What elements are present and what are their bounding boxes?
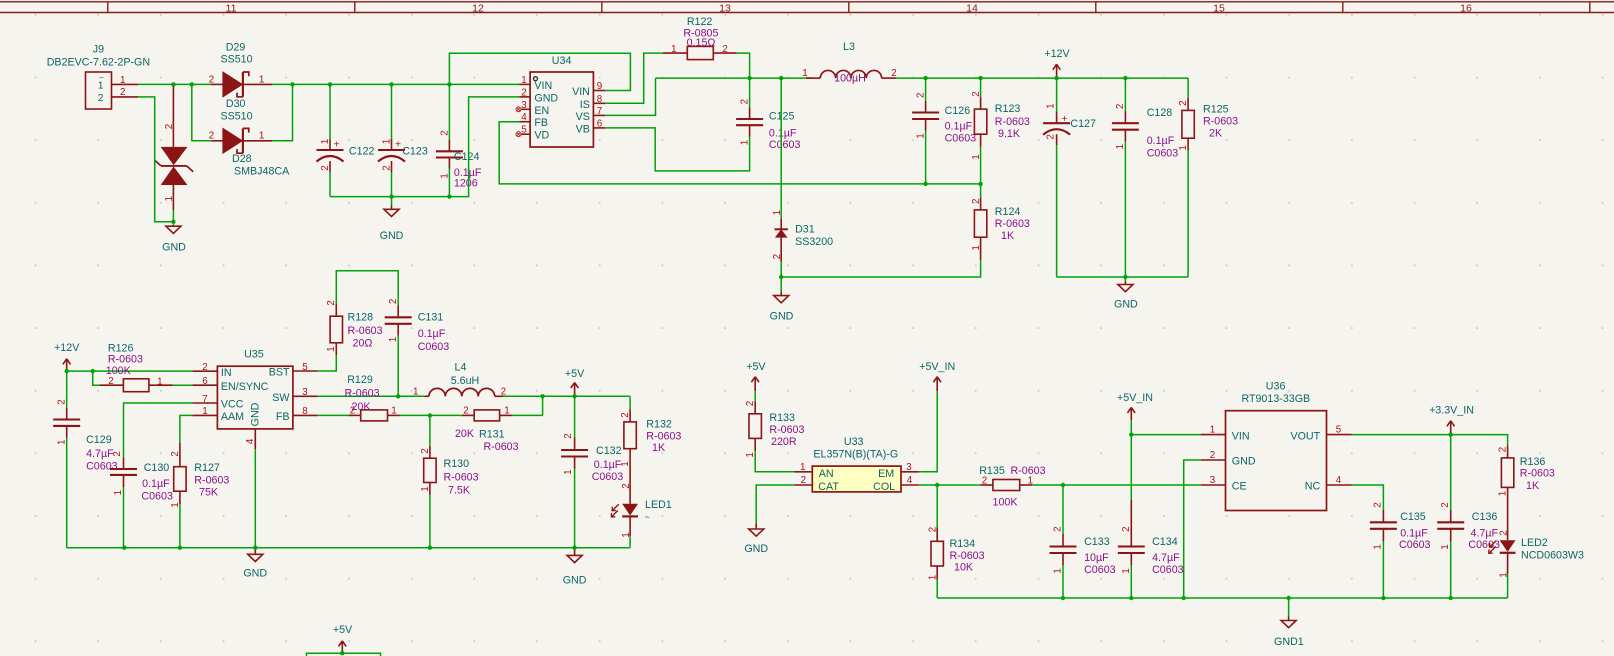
svg-text:1: 1 (1178, 145, 1189, 150)
capacitor C122 (317, 84, 375, 196)
resistor R133 (745, 391, 804, 458)
svg-text:5: 5 (1336, 425, 1342, 436)
svg-text:FB: FB (534, 117, 548, 129)
wire U36 gnd (1184, 460, 1201, 598)
svg-text:R128: R128 (348, 312, 374, 324)
svg-text:AAM: AAM (221, 411, 244, 423)
svg-text:VB: VB (576, 123, 590, 135)
svg-text:2: 2 (916, 93, 927, 98)
junction (447, 82, 451, 86)
wire +12V filter ground rail (1057, 276, 1189, 278)
svg-text:R-0603: R-0603 (1010, 465, 1045, 477)
svg-text:1: 1 (57, 440, 68, 445)
junction (978, 182, 982, 186)
capacitor C133 (1050, 485, 1116, 598)
svg-text:R136: R136 (1520, 456, 1546, 468)
svg-text:NCD0603W3: NCD0603W3 (1521, 549, 1584, 561)
svg-text:R-0603: R-0603 (769, 424, 804, 436)
svg-text:+12V: +12V (54, 342, 80, 354)
svg-text:1: 1 (259, 74, 264, 85)
svg-text:R-0603: R-0603 (995, 116, 1030, 128)
svg-text:1K: 1K (652, 442, 666, 454)
svg-text:0.1µF: 0.1µF (142, 478, 170, 490)
ground under D31 (770, 277, 794, 323)
svg-text:DB2EVC-7.62-2P-GN: DB2EVC-7.62-2P-GN (47, 56, 150, 68)
svg-text:2: 2 (463, 406, 468, 417)
capacitor C134 (1118, 500, 1184, 598)
junction (1054, 76, 1058, 80)
LED LED1 (611, 461, 671, 538)
svg-text:R-0603: R-0603 (1520, 468, 1555, 480)
svg-text:2: 2 (1121, 526, 1132, 531)
svg-text:1: 1 (202, 406, 207, 417)
svg-text:1: 1 (971, 154, 982, 159)
svg-text:7.5K: 7.5K (448, 484, 471, 496)
svg-text:LED2: LED2 (1521, 537, 1548, 549)
junction (1381, 596, 1385, 600)
svg-text:U36: U36 (1266, 381, 1286, 393)
junction (779, 76, 783, 80)
svg-text:C127: C127 (1070, 118, 1096, 130)
capacitor C132 (561, 396, 623, 547)
svg-text:1: 1 (802, 68, 807, 79)
wire D30 branch left (192, 84, 212, 140)
resistor R122 (663, 16, 737, 59)
svg-text:1K: 1K (1526, 480, 1540, 492)
svg-text:2: 2 (326, 300, 337, 305)
svg-text:EM: EM (878, 468, 894, 480)
svg-text:100µH: 100µH (834, 72, 866, 84)
wire caps ground rail (330, 97, 520, 197)
svg-text:2: 2 (801, 475, 806, 486)
svg-text:R-0603: R-0603 (995, 218, 1030, 230)
svg-text:4: 4 (907, 475, 913, 486)
resistor R128 (326, 300, 383, 355)
svg-text:VCC: VCC (221, 399, 244, 411)
svg-text:1K: 1K (1001, 230, 1015, 242)
svg-text:5.6uH: 5.6uH (451, 375, 480, 387)
svg-text:2: 2 (1046, 134, 1057, 139)
svg-text:R-0603: R-0603 (348, 325, 383, 337)
junction (923, 182, 927, 186)
svg-text:1: 1 (391, 406, 396, 417)
svg-text:GND: GND (162, 242, 186, 254)
svg-text:R-0603: R-0603 (344, 387, 379, 399)
inductor L3 (802, 41, 896, 85)
power flag +5V mid (565, 368, 585, 396)
wire U33 CAT to gnd (756, 485, 794, 524)
svg-text:100K: 100K (106, 365, 132, 377)
svg-text:~: ~ (645, 512, 650, 522)
wire +5V_IN down to C134 (1130, 435, 1132, 500)
svg-text:2: 2 (202, 362, 207, 373)
wire VOUT line (1352, 435, 1508, 446)
wire AAM branch (180, 415, 193, 443)
svg-text:J9: J9 (93, 43, 104, 55)
svg-text:GND: GND (243, 568, 267, 580)
svg-text:8: 8 (597, 94, 603, 105)
svg-text:6: 6 (597, 118, 603, 129)
svg-text:0.1µF: 0.1µF (418, 328, 446, 340)
ground under C128 (1114, 277, 1138, 310)
junction (171, 82, 175, 86)
svg-text:2K: 2K (1209, 127, 1223, 139)
svg-text:GND: GND (1114, 298, 1138, 310)
svg-text:C126: C126 (945, 105, 971, 117)
svg-text:EL357N(B)(TA)-G: EL357N(B)(TA)-G (813, 449, 898, 461)
svg-text:12: 12 (472, 2, 484, 14)
svg-text:2: 2 (971, 199, 982, 204)
svg-text:2: 2 (745, 401, 756, 406)
junction (1182, 596, 1186, 600)
resistor R124 (971, 184, 1030, 260)
junction (178, 546, 182, 550)
wire mid ground rail (67, 547, 630, 549)
svg-text:10µF: 10µF (1084, 552, 1109, 564)
svg-text:2: 2 (209, 131, 214, 142)
svg-text:+5V: +5V (333, 624, 353, 636)
power flag +5V bottom (333, 624, 353, 653)
svg-text:4: 4 (245, 438, 256, 444)
svg-text:GND: GND (744, 543, 768, 555)
wire R135 to CE (1032, 484, 1201, 486)
junction (1449, 596, 1453, 600)
junction (978, 76, 982, 80)
svg-text:+5V: +5V (565, 368, 585, 380)
svg-text:1: 1 (916, 133, 927, 138)
svg-text:1: 1 (98, 80, 104, 91)
junction (923, 76, 927, 80)
capacitor C135 (1370, 502, 1431, 598)
wire LED1 to gnd rail (629, 536, 631, 548)
svg-text:EN/SYNC: EN/SYNC (221, 381, 269, 393)
svg-text:1: 1 (157, 377, 162, 388)
svg-text:2: 2 (320, 165, 331, 170)
svg-text:1: 1 (772, 210, 783, 215)
svg-text:1: 1 (440, 173, 451, 178)
junction (190, 82, 194, 86)
svg-text:SS3200: SS3200 (795, 236, 833, 248)
wire FB feedback line (499, 122, 980, 184)
wire VCC branch (124, 403, 193, 458)
wire EM to +5V_IN (919, 391, 937, 472)
svg-text:D29: D29 (226, 41, 246, 53)
svg-text:C0603: C0603 (1147, 147, 1179, 159)
wire R126 to EN/SYNC (173, 384, 193, 386)
svg-text:GND: GND (380, 230, 404, 242)
svg-text:9.1K: 9.1K (998, 128, 1021, 140)
svg-text:C0603: C0603 (418, 341, 450, 353)
svg-text:2: 2 (388, 299, 399, 304)
capacitor C131 (385, 299, 450, 396)
svg-text:2: 2 (1053, 526, 1064, 531)
svg-text:+12V: +12V (1044, 48, 1070, 60)
wire bootstrap bracket (336, 271, 398, 306)
svg-text:R-0603: R-0603 (108, 354, 143, 366)
power flag +12V mid (54, 342, 80, 371)
svg-text:2: 2 (120, 87, 125, 98)
svg-text:D31: D31 (795, 223, 815, 235)
wire NC to C135 (1352, 485, 1384, 510)
svg-text:L4: L4 (455, 361, 467, 373)
svg-text:1: 1 (1440, 544, 1451, 549)
svg-text:R125: R125 (1203, 104, 1229, 116)
svg-text:2: 2 (209, 74, 214, 85)
power flag +5V right (746, 361, 766, 391)
svg-text:C122: C122 (349, 146, 375, 158)
wire IS to R122 (605, 53, 663, 103)
svg-text:+: + (1061, 114, 1067, 125)
resistor R123 (971, 78, 1030, 184)
junction (1061, 596, 1065, 600)
svg-text:100K: 100K (993, 497, 1019, 509)
svg-text:L3: L3 (843, 41, 855, 53)
svg-text:AN: AN (819, 468, 834, 480)
svg-text:IN: IN (221, 367, 232, 379)
ground under C132 (563, 548, 587, 587)
svg-text:2: 2 (521, 87, 526, 98)
svg-text:1: 1 (164, 196, 175, 201)
junction (540, 394, 544, 398)
svg-text:7: 7 (202, 394, 207, 405)
wire D31 to gnd rail (781, 260, 980, 277)
wire R129 to junction (400, 414, 462, 416)
svg-text:20Ω: 20Ω (353, 338, 373, 350)
svg-text:NC: NC (1305, 481, 1321, 493)
svg-text:FB: FB (276, 411, 290, 423)
junction (1123, 275, 1127, 279)
svg-text:C0603: C0603 (141, 490, 173, 502)
svg-text:1: 1 (563, 469, 574, 474)
svg-text:VOUT: VOUT (1290, 430, 1320, 442)
svg-text:2: 2 (420, 448, 431, 453)
svg-text:2: 2 (891, 68, 896, 79)
wire VB bootstrap loop (605, 128, 749, 171)
svg-text:2: 2 (620, 412, 631, 417)
wire rail to U34 VIN (272, 83, 520, 85)
resistor R135 (979, 465, 1045, 509)
ground under U33 (744, 524, 768, 556)
svg-text:C131: C131 (418, 312, 444, 324)
svg-text:2: 2 (772, 254, 783, 259)
junction (171, 220, 175, 224)
svg-text:D30: D30 (226, 98, 246, 110)
wire D28 to gnd (172, 210, 174, 222)
svg-text:C123: C123 (402, 146, 428, 158)
svg-text:R132: R132 (646, 419, 672, 431)
svg-text:2: 2 (1178, 100, 1189, 105)
svg-text:1: 1 (420, 486, 431, 491)
svg-text:U35: U35 (244, 348, 264, 360)
svg-text:1: 1 (1115, 144, 1126, 149)
junction (389, 194, 393, 198)
svg-text:C130: C130 (144, 462, 170, 474)
wire U35 gnd pin (254, 449, 256, 547)
svg-text:C136: C136 (1472, 511, 1498, 523)
junction (428, 413, 432, 417)
junction (290, 82, 294, 86)
svg-text:R-0603: R-0603 (646, 430, 681, 442)
svg-text:C134: C134 (1152, 536, 1178, 548)
junction (1286, 596, 1290, 600)
optocoupler U33 (795, 436, 919, 493)
svg-text:GND: GND (1232, 456, 1256, 468)
svg-text:0.1µF: 0.1µF (769, 127, 797, 139)
svg-text:SMBJ48CA: SMBJ48CA (234, 166, 290, 178)
svg-text:220R: 220R (771, 436, 797, 448)
junction (65, 369, 69, 373)
svg-text:C0603: C0603 (592, 471, 624, 483)
junction (428, 546, 432, 550)
svg-text:20K: 20K (455, 428, 475, 440)
svg-text:5: 5 (302, 362, 308, 373)
wire right ground rail (937, 597, 1507, 599)
svg-text:2: 2 (1115, 104, 1126, 109)
resistor R131 (455, 406, 519, 453)
junction (253, 546, 257, 550)
svg-text:VIN: VIN (1232, 430, 1250, 442)
inductor L4 (413, 361, 506, 397)
svg-text:9: 9 (597, 81, 602, 92)
capacitor C123 (378, 84, 428, 196)
junction (122, 546, 126, 550)
svg-text:+5V: +5V (746, 361, 766, 373)
svg-text:C0603: C0603 (1152, 564, 1184, 576)
svg-text:C124: C124 (454, 151, 480, 163)
svg-text:IS: IS (580, 99, 590, 111)
svg-text:1: 1 (800, 462, 805, 473)
svg-text:1: 1 (504, 406, 509, 417)
wire +5V_IN to VIN (1131, 420, 1201, 435)
svg-text:C132: C132 (596, 445, 622, 457)
junction (396, 394, 400, 398)
svg-text:1: 1 (1053, 568, 1064, 573)
svg-text:4.7µF: 4.7µF (86, 448, 114, 460)
resistor R126 (100, 342, 173, 391)
svg-text:20K: 20K (351, 401, 371, 413)
svg-text:3: 3 (1210, 475, 1216, 486)
svg-text:SS510: SS510 (220, 110, 252, 122)
svg-text:+: + (334, 140, 340, 151)
svg-text:+3.3V_IN: +3.3V_IN (1429, 405, 1474, 417)
svg-text:R126: R126 (108, 342, 134, 354)
diode D30 (209, 98, 272, 153)
svg-text:13: 13 (719, 2, 731, 14)
junction (1129, 432, 1133, 436)
svg-text:BST: BST (269, 367, 290, 379)
wire +5V branch to R132 (629, 396, 631, 409)
svg-text:2: 2 (1440, 502, 1451, 507)
svg-text:R123: R123 (995, 103, 1021, 115)
wire R131 to L4 out (512, 414, 543, 416)
junction (1449, 432, 1453, 436)
svg-text:2: 2 (98, 93, 104, 104)
capacitor C129 (53, 371, 117, 548)
junction (572, 394, 576, 398)
wire U34 VIN loop (449, 53, 630, 90)
svg-text:R130: R130 (444, 458, 470, 470)
svg-text:2: 2 (722, 44, 727, 55)
svg-text:2: 2 (1210, 450, 1215, 461)
svg-text:1: 1 (413, 386, 418, 397)
svg-text:2: 2 (1497, 447, 1508, 452)
svg-text:C0603: C0603 (86, 460, 118, 472)
svg-text:1: 1 (259, 131, 264, 142)
svg-text:C135: C135 (1400, 511, 1426, 523)
svg-text:R-0603: R-0603 (1203, 116, 1238, 128)
svg-text:4: 4 (1336, 475, 1342, 486)
wire VS to rail (605, 78, 655, 115)
svg-text:C133: C133 (1084, 536, 1110, 548)
svg-text:1: 1 (326, 346, 337, 351)
svg-text:EN: EN (534, 105, 549, 117)
capacitor C136 (1437, 502, 1500, 598)
svg-text:0.1µF: 0.1µF (1147, 135, 1175, 147)
svg-text:GND: GND (249, 402, 261, 426)
svg-text:1: 1 (927, 575, 938, 580)
regulator U34 (516, 55, 605, 147)
svg-text:0.1µF: 0.1µF (1400, 527, 1428, 539)
svg-text:75K: 75K (199, 486, 219, 498)
junction (572, 546, 576, 550)
svg-text:0.15Ω: 0.15Ω (687, 37, 716, 49)
svg-text:14: 14 (966, 2, 978, 14)
svg-text:RT9013-33GB: RT9013-33GB (1241, 393, 1310, 405)
svg-text:1206: 1206 (454, 178, 478, 190)
svg-text:R129: R129 (347, 374, 373, 386)
junction (935, 483, 939, 487)
wire J9 pin2 to gnd (138, 97, 173, 222)
TVS diode D28 (155, 84, 291, 210)
svg-text:1: 1 (113, 490, 124, 495)
svg-text:2: 2 (927, 527, 938, 532)
svg-text:CE: CE (1232, 481, 1247, 493)
svg-text:1: 1 (521, 75, 526, 86)
capacitor C130 (110, 451, 173, 548)
svg-text:VD: VD (534, 130, 549, 142)
ground under U35 (243, 548, 267, 580)
junction (779, 275, 783, 279)
svg-text:1: 1 (1046, 103, 1057, 108)
junction (91, 369, 95, 373)
svg-text:R127: R127 (194, 462, 220, 474)
svg-text:C129: C129 (86, 434, 112, 446)
svg-text:C0603: C0603 (769, 139, 801, 151)
wire BST branch (318, 355, 337, 371)
svg-text:2: 2 (740, 99, 751, 104)
wire +3.3V_IN down to C136 (1450, 435, 1452, 510)
LED LED2 (1489, 500, 1584, 578)
capacitor C127 (1043, 78, 1096, 277)
svg-text:GND: GND (534, 92, 558, 104)
svg-text:2: 2 (621, 483, 632, 488)
power flag +12V top (1044, 48, 1070, 78)
svg-text:R135: R135 (979, 465, 1005, 477)
resistor R136 (1497, 446, 1555, 501)
wire output rail left of L3 (656, 77, 813, 79)
regulator U36 (1201, 381, 1352, 511)
svg-text:1: 1 (320, 139, 331, 144)
svg-text:R134: R134 (950, 538, 976, 550)
power flag +3.3V_IN (1429, 405, 1474, 435)
svg-text:2: 2 (164, 124, 175, 129)
svg-text:4: 4 (521, 112, 527, 123)
svg-text:CAT: CAT (818, 481, 839, 493)
junction (1061, 483, 1065, 487)
svg-text:2: 2 (440, 130, 451, 135)
svg-text:2: 2 (971, 91, 982, 96)
capacitor C128 (1112, 78, 1178, 277)
